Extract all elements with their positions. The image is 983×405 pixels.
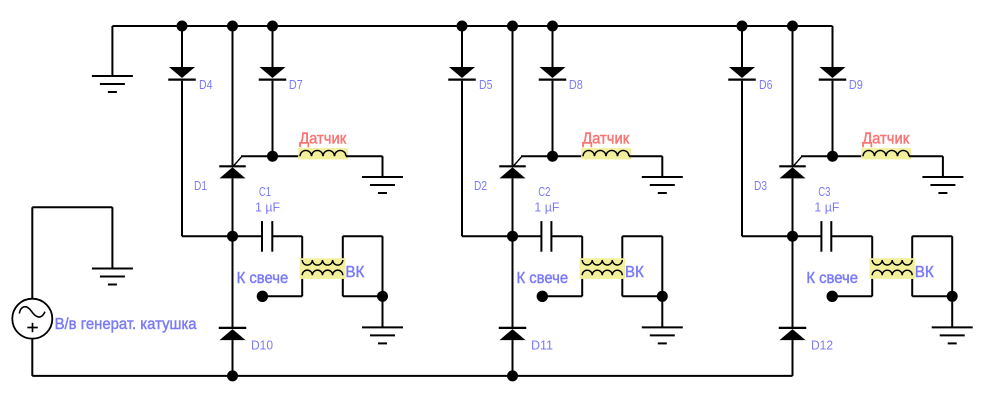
svg-text:1 µF: 1 µF xyxy=(814,200,839,215)
transformer ВК windings xyxy=(580,258,626,279)
inductor: Датчик sensor coil xyxy=(861,148,911,159)
node: rail junction at D4 xyxy=(177,21,188,32)
node: C node of C2 xyxy=(507,231,518,242)
wire: VK top to ground line xyxy=(912,235,952,237)
wire: sensor ground drop xyxy=(382,156,384,177)
wire: VK bottom to ground junction xyxy=(912,295,952,297)
wire: VK bottom to ground junction xyxy=(622,295,662,297)
wire: C1 to VK primary top xyxy=(272,235,302,237)
wire: C node to C1 xyxy=(233,235,263,237)
svg-text:Датчик: Датчик xyxy=(582,130,629,147)
wire: VK right line xyxy=(342,236,344,296)
ground (VK) xyxy=(932,327,973,343)
svg-text:C2: C2 xyxy=(538,184,550,199)
wire: source top lead xyxy=(31,207,33,299)
node: C node of C3 xyxy=(787,231,798,242)
wire: rail to D4 anode xyxy=(181,26,183,67)
svg-text:1 µF: 1 µF xyxy=(534,200,559,215)
wire: thyristor D2 to C node xyxy=(512,178,514,236)
node: rail junction at D7 xyxy=(267,21,278,32)
diode D4 xyxy=(168,67,196,80)
svg-text:ВК: ВК xyxy=(625,264,645,281)
node: spark plug terminal (К свече) xyxy=(537,291,548,302)
wire: sensor ground drop xyxy=(942,156,944,177)
wire: D12 to bottom rail xyxy=(792,340,794,376)
thyristor D3 xyxy=(779,156,806,178)
wire: jog to C node xyxy=(742,235,793,237)
diode D10 xyxy=(219,328,247,340)
node: rail junction at D6 xyxy=(737,21,748,32)
svg-text:1 µF: 1 µF xyxy=(255,200,280,215)
wire: jog to C node xyxy=(462,235,513,237)
wire: rail to D6 anode xyxy=(741,26,743,67)
node: rail junction at D2 branch xyxy=(507,21,518,32)
wire: D9 cathode to gate node xyxy=(832,81,834,157)
svg-text:К свече: К свече xyxy=(806,270,858,287)
wire: sensor coil to ground xyxy=(909,155,943,157)
wire: VK right line xyxy=(621,236,623,296)
wire: D7 cathode to gate node xyxy=(272,81,274,157)
wire: VK ground line xyxy=(382,236,384,327)
wire: thyristor D3 to C node xyxy=(792,178,794,236)
wire: C2 to VK primary top xyxy=(551,235,582,237)
diode D5 xyxy=(448,67,476,80)
wire: VK bottom to ground junction xyxy=(343,295,383,297)
ground (sensor) xyxy=(642,177,683,193)
thyristor D2 xyxy=(499,156,526,178)
capacitor C3 xyxy=(821,221,831,252)
svg-text:К свече: К свече xyxy=(517,270,569,287)
wire: D10 to bottom rail xyxy=(232,340,234,376)
node: bottom rail junction at D10 xyxy=(227,370,238,381)
wire: top-left ground drop xyxy=(111,26,113,76)
node: gate junction with D7 xyxy=(267,151,278,162)
svg-text:D4: D4 xyxy=(199,77,213,92)
ground (top left) xyxy=(92,76,133,92)
node: spark plug terminal (К свече) xyxy=(827,291,838,302)
wire: C node to C2 xyxy=(513,235,542,237)
svg-text:ВК: ВК xyxy=(915,264,935,281)
wire: VK secondary to spark terminal xyxy=(262,295,302,297)
node: bottom rail junction at D11 xyxy=(507,370,518,381)
wire: bottom rail xyxy=(32,375,792,377)
wire: D5 cathode down xyxy=(461,81,463,237)
wire: VK right line xyxy=(911,236,913,296)
node: C node of C1 xyxy=(227,231,238,242)
transformer ВК windings xyxy=(300,258,346,279)
ground (sensor) xyxy=(922,177,963,193)
svg-text:D12: D12 xyxy=(811,338,833,353)
wire: gate wire of D1 xyxy=(241,155,300,157)
wire: rail to D8 anode xyxy=(552,26,554,67)
node: spark plug terminal (К свече) xyxy=(257,291,268,302)
wire: source loop right drop xyxy=(111,207,113,268)
wire: rail to thyristor D1 xyxy=(232,26,234,165)
svg-text:C3: C3 xyxy=(818,184,830,199)
wire: rail end corner to D9 xyxy=(832,26,834,67)
capacitor C1 xyxy=(262,221,272,252)
wire: sensor ground drop xyxy=(661,156,663,177)
svg-text:D3: D3 xyxy=(754,178,767,193)
thyristor D1 xyxy=(219,156,246,178)
wire: jog to C node xyxy=(182,235,233,237)
svg-text:D8: D8 xyxy=(569,77,583,92)
svg-text:D6: D6 xyxy=(759,77,773,92)
wire: C3 to VK primary top xyxy=(831,235,872,237)
wire: VK left line xyxy=(581,236,583,296)
wire: VK top to ground line xyxy=(622,235,662,237)
node: rail junction at D3 branch xyxy=(787,21,798,32)
inductor: Датчик sensor coil xyxy=(298,148,348,159)
wire: C node to D10 xyxy=(232,236,234,327)
wire: rail to D5 anode xyxy=(461,26,463,67)
diode D6 xyxy=(728,67,756,80)
node: VK ground junction xyxy=(657,291,668,302)
wire: top supply rail xyxy=(112,25,832,27)
AC source: high-voltage generator coil xyxy=(12,299,52,339)
diode D9 xyxy=(819,67,847,80)
svg-text:Датчик: Датчик xyxy=(862,130,909,147)
diode D11 xyxy=(499,328,527,340)
wire: source bottom lead xyxy=(31,339,33,376)
wire: VK secondary to spark terminal xyxy=(542,295,582,297)
wire: sensor coil to ground xyxy=(346,155,383,157)
node: gate junction with D8 xyxy=(547,151,558,162)
svg-text:К свече: К свече xyxy=(237,270,289,287)
svg-text:D7: D7 xyxy=(289,77,303,92)
wire: D4 cathode down xyxy=(181,81,183,237)
wire: D11 to bottom rail xyxy=(512,340,514,376)
svg-text:В/в генерат. катушка: В/в генерат. катушка xyxy=(55,316,197,333)
wire: gate wire of D3 xyxy=(801,155,863,157)
node: VK ground junction xyxy=(947,291,958,302)
ground (source loop) xyxy=(92,269,133,285)
svg-text:D2: D2 xyxy=(474,178,487,193)
svg-text:D9: D9 xyxy=(849,77,863,92)
svg-text:Датчик: Датчик xyxy=(299,130,346,147)
wire: D6 cathode down xyxy=(741,81,743,237)
wire: VK left line xyxy=(301,236,303,296)
wire: source loop top xyxy=(32,206,112,208)
transformer ВК windings xyxy=(870,258,915,279)
ground (sensor) xyxy=(362,177,403,193)
svg-text:D5: D5 xyxy=(479,77,493,92)
ground (VK) xyxy=(362,327,403,343)
svg-text:ВК: ВК xyxy=(345,264,365,281)
wire: VK top to ground line xyxy=(343,235,383,237)
svg-text:D1: D1 xyxy=(194,178,207,193)
wire: C node to D11 xyxy=(512,236,514,327)
wire: VK secondary to spark terminal xyxy=(832,295,872,297)
wire: sensor coil to ground xyxy=(629,155,662,157)
inductor: Датчик sensor coil xyxy=(581,148,631,159)
svg-text:D10: D10 xyxy=(251,338,273,353)
wire: VK left line xyxy=(871,236,873,296)
node: rail junction at D1 branch xyxy=(227,21,238,32)
capacitor C2 xyxy=(541,221,551,252)
svg-text:D11: D11 xyxy=(531,338,553,353)
wire: rail to thyristor D2 xyxy=(512,26,514,165)
node: rail junction at D8 xyxy=(547,21,558,32)
node: gate junction with D9 xyxy=(827,151,838,162)
wire: rail to thyristor D3 xyxy=(792,26,794,165)
diode D12 xyxy=(779,328,807,340)
node: rail junction at D5 xyxy=(457,21,468,32)
svg-text:C1: C1 xyxy=(259,184,271,199)
diode D7 xyxy=(259,67,287,80)
wire: D8 cathode to gate node xyxy=(552,81,554,157)
wire: VK ground line xyxy=(661,236,663,327)
ground (VK) xyxy=(642,327,683,343)
wire: VK ground line xyxy=(951,236,953,327)
wire: C node to D12 xyxy=(792,236,794,327)
wire: C node to C3 xyxy=(793,235,822,237)
node: VK ground junction xyxy=(377,291,388,302)
wire: gate wire of D2 xyxy=(521,155,583,157)
wire: rail to D7 anode xyxy=(272,26,274,67)
wire: thyristor D1 to C node xyxy=(232,178,234,236)
diode D8 xyxy=(539,67,567,80)
